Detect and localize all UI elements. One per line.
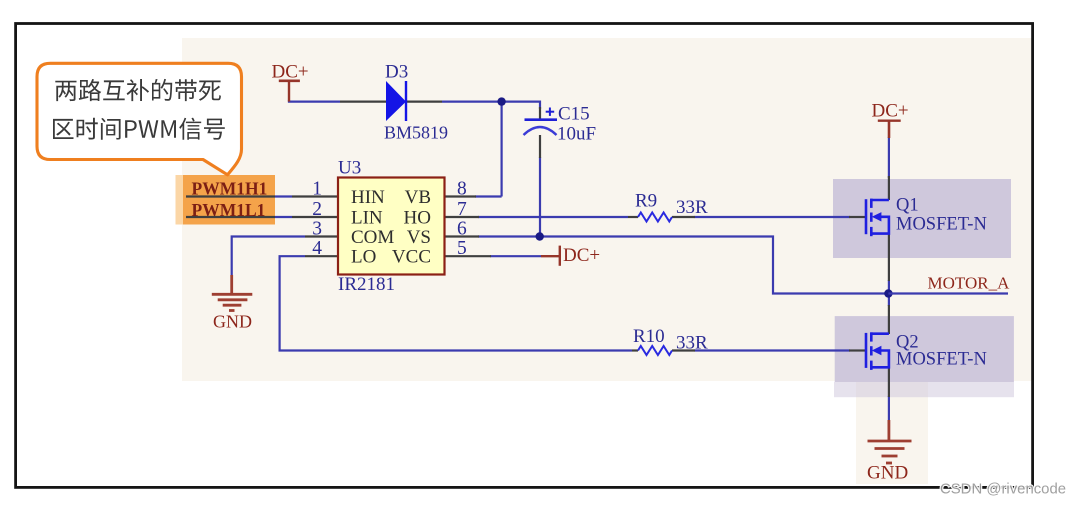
svg-text:DC+: DC+ bbox=[272, 61, 309, 82]
svg-text:VCC: VCC bbox=[392, 247, 431, 268]
svg-text:PWM1H1: PWM1H1 bbox=[192, 178, 268, 198]
svg-text:33R: 33R bbox=[676, 197, 708, 218]
svg-text:C15: C15 bbox=[558, 104, 590, 125]
svg-text:LO: LO bbox=[351, 247, 376, 268]
svg-text:2: 2 bbox=[312, 199, 322, 220]
svg-text:7: 7 bbox=[457, 199, 467, 220]
svg-text:COM: COM bbox=[351, 227, 394, 248]
svg-text:8: 8 bbox=[457, 179, 467, 200]
svg-text:U3: U3 bbox=[338, 158, 361, 179]
svg-text:BM5819: BM5819 bbox=[384, 123, 448, 143]
svg-text:MOTOR_A: MOTOR_A bbox=[928, 274, 1011, 293]
svg-text:PWM1L1: PWM1L1 bbox=[192, 200, 266, 220]
svg-text:VB: VB bbox=[405, 187, 431, 208]
svg-text:GND: GND bbox=[867, 462, 908, 483]
svg-text:5: 5 bbox=[457, 238, 467, 259]
svg-text:33R: 33R bbox=[676, 333, 708, 354]
svg-text:1: 1 bbox=[312, 179, 322, 200]
svg-text:R10: R10 bbox=[633, 326, 665, 347]
svg-text:DC+: DC+ bbox=[872, 101, 909, 122]
svg-text:HO: HO bbox=[404, 208, 431, 229]
svg-text:IR2181: IR2181 bbox=[338, 274, 395, 295]
svg-text:6: 6 bbox=[457, 219, 467, 240]
svg-text:DC+: DC+ bbox=[563, 245, 600, 266]
svg-text:3: 3 bbox=[312, 219, 322, 240]
svg-text:R9: R9 bbox=[635, 191, 657, 212]
svg-text:CSDN @rivencode: CSDN @rivencode bbox=[940, 482, 1066, 498]
svg-text:10uF: 10uF bbox=[557, 124, 596, 145]
svg-text:D3: D3 bbox=[385, 62, 408, 83]
svg-text:GND: GND bbox=[213, 312, 252, 332]
svg-text:LIN: LIN bbox=[351, 208, 383, 229]
svg-text:MOSFET-N: MOSFET-N bbox=[896, 214, 987, 234]
svg-text:VS: VS bbox=[407, 227, 431, 248]
svg-text:MOSFET-N: MOSFET-N bbox=[896, 349, 987, 369]
svg-text:4: 4 bbox=[312, 238, 322, 259]
svg-text:Q1: Q1 bbox=[896, 195, 919, 215]
svg-text:HIN: HIN bbox=[351, 187, 385, 208]
